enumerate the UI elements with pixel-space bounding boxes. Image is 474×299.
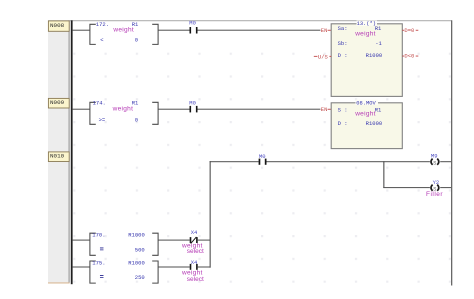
svg-text:weight: weight <box>354 111 376 118</box>
contact M0 (rung2) <box>189 99 197 112</box>
svg-text:select: select <box>187 248 204 255</box>
wire rung2: contact to EN <box>198 109 321 110</box>
coil M9 (S) <box>431 152 439 166</box>
wire: coil Y2 to right rail <box>440 187 451 188</box>
wire: branch to coil Y2 <box>383 187 430 188</box>
pin D=0 (output stub, red) <box>402 27 418 34</box>
rung header column <box>48 20 70 283</box>
comparison contact CMP3 [170. R1000 = 500] <box>90 233 158 255</box>
wire rung1: comparison to contact M0 <box>158 30 189 31</box>
wire branchA: comparison to contact X4 <box>158 240 190 241</box>
svg-text:500: 500 <box>135 246 145 253</box>
contact M0 (rung1) <box>189 20 197 34</box>
svg-text:X4: X4 <box>191 229 198 236</box>
svg-text:EN: EN <box>321 106 328 113</box>
svg-text:N010: N010 <box>50 153 65 160</box>
coil Y2 (S) Filler <box>426 179 443 198</box>
pin EN (rung2, red) <box>321 106 331 113</box>
svg-text:R1000: R1000 <box>366 52 383 59</box>
svg-text:08.MOV: 08.MOV <box>356 100 376 106</box>
svg-text:=: = <box>100 247 104 255</box>
svg-text:>=: >= <box>99 117 106 124</box>
svg-text:S :: S : <box>338 106 348 113</box>
wire branchA: contact to vertical <box>198 240 211 241</box>
contact X4 NO (weight select) <box>181 259 204 283</box>
rung label N008 <box>48 21 69 31</box>
comparison contact CMP2 [174. R1 weight &gt;= 0] <box>90 102 158 124</box>
wire branchB: comparison to contact X4 <box>158 267 190 268</box>
svg-text:EN: EN <box>321 27 328 34</box>
right power rail <box>451 20 452 285</box>
svg-text:0: 0 <box>135 37 138 44</box>
wire rung3: vertical to contact M0 <box>210 161 259 162</box>
wire rung2: rail to comparison <box>73 109 90 110</box>
svg-text:Filler: Filler <box>426 191 443 198</box>
wire: coil M9 to right rail <box>440 161 451 162</box>
wire rung2: comparison to contact M0 <box>158 109 189 110</box>
wire branchA: rail to comparison <box>73 240 90 241</box>
svg-text:174.: 174. <box>93 99 106 106</box>
svg-text:0: 0 <box>135 117 138 124</box>
svg-text:N009: N009 <box>50 99 65 106</box>
svg-text:175.: 175. <box>92 260 105 267</box>
wire rung1: rail to comparison <box>73 30 90 31</box>
svg-text:D<0: D<0 <box>404 52 414 59</box>
wire rung3: contact to coil M9 <box>267 161 430 162</box>
comparison contact CMP1 [172. R1 weight &lt; 0] <box>90 24 158 44</box>
svg-text:Sa:: Sa: <box>338 25 348 32</box>
wire rung1: contact to EN <box>198 30 321 31</box>
svg-text:M0: M0 <box>189 99 196 106</box>
pin U/S (rung1, red, unconnected stub) <box>314 53 331 60</box>
svg-text:Sb:: Sb: <box>338 40 348 47</box>
svg-text:M0: M0 <box>189 20 196 27</box>
wire branchB: contact to vertical <box>198 267 211 268</box>
rung label N010 <box>48 152 69 162</box>
svg-text:R1000: R1000 <box>128 232 145 239</box>
svg-text:-1: -1 <box>375 40 382 47</box>
svg-text:=: = <box>100 274 104 282</box>
svg-text:172.: 172. <box>96 21 109 28</box>
svg-text:select: select <box>187 276 204 283</box>
node: rung3 left vertical (branch join) <box>210 161 211 268</box>
svg-text:170.: 170. <box>92 232 105 239</box>
svg-text:<: < <box>100 37 103 44</box>
pin D&lt;0 (output stub, red) <box>402 52 418 59</box>
svg-text:R1000: R1000 <box>128 260 145 267</box>
svg-text:S: S <box>433 161 436 167</box>
svg-text:D :: D : <box>338 52 348 59</box>
svg-text:U/S: U/S <box>318 53 329 60</box>
svg-text:13.(*): 13.(*) <box>357 21 376 27</box>
svg-text:weight: weight <box>112 106 134 113</box>
contact M0 (rung3) <box>259 153 267 165</box>
svg-text:250: 250 <box>135 274 145 281</box>
function block U1 13.(*) multiply <box>331 21 402 97</box>
wire: rung3 branch vertical to Y2 <box>383 161 384 188</box>
svg-text:weight: weight <box>354 31 376 38</box>
wire branchB: rail to comparison <box>73 267 90 268</box>
svg-text:N008: N008 <box>50 22 65 29</box>
contact X4 NC (weight select) <box>181 229 204 255</box>
rung label N009 <box>48 98 69 108</box>
svg-text:R1000: R1000 <box>366 120 383 127</box>
svg-text:D :: D : <box>338 120 348 127</box>
svg-text:D=0: D=0 <box>404 27 414 34</box>
function block U2 08.MOV <box>331 100 402 149</box>
left power rail <box>71 20 73 284</box>
svg-text:weight: weight <box>112 27 134 34</box>
comparison contact CMP4 [175. R1000 = 250] <box>90 261 158 283</box>
pin EN (rung1, red) <box>321 27 331 34</box>
